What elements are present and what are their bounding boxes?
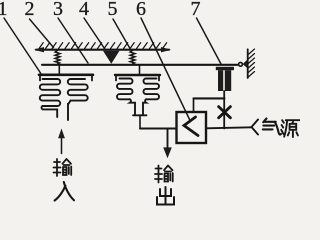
wall hatching [248, 49, 255, 78]
amplifier symbol < [184, 117, 198, 136]
bellows 3 bottom tail [130, 99, 135, 115]
beam end pivot circle [239, 62, 243, 66]
svg-text:4: 4 [79, 0, 89, 20]
bellows 1 bottom tail [42, 106, 58, 117]
leader line 5 [113, 19, 130, 49]
leader line 3 [58, 18, 88, 63]
output arrow [167, 129, 169, 150]
wall line [247, 49, 249, 78]
nozzle left block [218, 70, 223, 91]
input arrow [61, 137, 63, 154]
svg-text:6: 6 [136, 0, 146, 20]
svg-text:2: 2 [25, 0, 35, 20]
left assembly top bar [39, 74, 93, 77]
output line to amplifier [140, 128, 177, 130]
spring 1 (zigzag) [55, 50, 60, 64]
wall anchor triangle [243, 60, 248, 68]
text 气 (air) [263, 119, 281, 135]
feedback stem down [139, 115, 141, 128]
fixed support line [36, 49, 169, 51]
text 源 (source) [281, 120, 300, 137]
leader line 7 [197, 18, 222, 64]
left bar left hook [39, 76, 41, 81]
nozzle face bar [216, 67, 234, 70]
svg-text:5: 5 [108, 0, 118, 20]
restrictor valve X [219, 107, 231, 118]
text 输 (input) [54, 159, 72, 176]
bellows 4 bottom tail [143, 99, 146, 115]
nozzle pipe down [223, 91, 225, 129]
beam (lever) [42, 64, 238, 66]
bellows 2 bottom tail [68, 101, 71, 120]
feedback loop vertical (box top) [193, 98, 195, 112]
right assembly stem [139, 66, 141, 74]
bellows 4 (feedback) [144, 79, 159, 100]
hatching on fixed line [39, 43, 167, 49]
feedback loop horizontal [194, 97, 225, 99]
text 输 (output) [155, 166, 173, 183]
air supply chevron [252, 120, 259, 135]
right assembly top bar [115, 74, 160, 76]
bellows 2 (measuring) [68, 79, 88, 101]
feedback bellows bottom bar [133, 114, 147, 116]
leader line 4 [84, 18, 106, 50]
svg-text:3: 3 [53, 0, 63, 20]
leader line 1 [4, 18, 42, 75]
amplifier box U1 [177, 112, 207, 143]
fixed line right end arrow [161, 47, 171, 52]
bellows 3 (feedback) [117, 79, 132, 100]
nozzle right block [225, 70, 231, 91]
right bar right hook [158, 76, 160, 81]
bellows 1 (measuring) [40, 79, 60, 106]
svg-text:7: 7 [191, 0, 201, 20]
text 入 (input) [55, 182, 74, 201]
pivot fulcrum triangle [103, 51, 120, 64]
text 出 (output) [157, 187, 174, 205]
leader line 6 [141, 18, 191, 122]
air supply line [206, 127, 252, 128]
fixed line left end arrow [34, 47, 44, 52]
svg-text:1: 1 [0, 0, 8, 20]
left bar right hook [91, 76, 93, 81]
left assembly stem [58, 66, 60, 74]
right bar left hook [115, 76, 117, 81]
leader line 2 [30, 19, 54, 48]
spring 2 (zigzag) [130, 50, 135, 64]
